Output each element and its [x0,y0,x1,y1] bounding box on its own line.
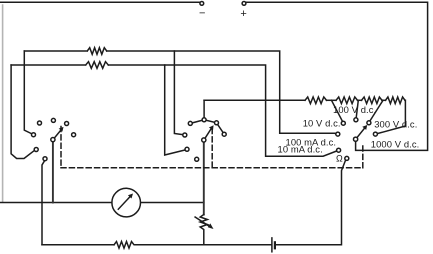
wire: chain segment J1 [327,99,337,101]
dashed gang coupling: right vertical [362,146,364,168]
wire: middle switch wiper shaft down [203,142,205,215]
page gutter shadow [2,5,4,202]
multiplier chain top wire [204,99,305,101]
rheostat RV1 zigzag [200,215,207,245]
right switch 1000V contact [373,132,377,136]
bottom battery line with resistor R7 [42,242,271,249]
wire: chain segment J3 [382,99,386,101]
right switch S1c wiper arrow [357,128,365,138]
resistor R1 top-left [24,48,106,55]
middle switch contact 3 [202,118,206,122]
rheostat RV1 arrow [195,217,211,227]
left switch S1a wiper arrow [54,130,61,139]
battery B1 long plate [271,238,273,252]
svg-text:Ω: Ω [336,153,343,163]
wire: J3 diagonal to 300V contact [370,100,383,121]
wire: top positive lead to right rail down to V-range wiper [246,2,428,150]
wire: meter line right to shunt rheostat [141,202,204,204]
wire: tap from R1 line to middle switch left contact [174,51,183,135]
wire: J2 stub to 100V contact [356,100,358,118]
middle switch contact 4 [215,121,219,125]
left switch contact 6 [34,148,38,152]
svg-text:100 V d.c.: 100 V d.c. [333,104,376,115]
dashed gang coupling: horizontal [61,167,363,169]
middle switch contact 6 [185,147,189,151]
svg-text:10 mA d.c.: 10 mA d.c. [278,144,323,155]
wire: chain end down to 1000V contact [377,100,405,133]
middle switch contact 5 [222,132,226,136]
svg-text:300 V d.c.: 300 V d.c. [374,118,417,129]
wire: left switch bottom contact down to battery line [42,161,45,245]
resistor R3 [305,97,327,104]
svg-text:10 V d.c.: 10 V d.c. [303,117,341,128]
middle switch contact 2 [188,121,192,125]
dashed gang coupling: left vertical [60,127,62,168]
wire: meter line left [0,202,112,204]
svg-text:+: + [240,8,246,20]
meter M1 body [112,188,141,217]
resistor R4 [336,97,358,104]
right switch 100V contact [354,118,358,122]
right switch 10V contact [341,121,345,125]
right switch pivot [354,137,358,141]
left switch contact 2 [38,121,42,125]
resistor R5 [362,97,383,104]
left switch contact 3 [51,118,55,122]
terminal negative [200,2,204,6]
wire: R2 right run down to 10mA contact [108,65,337,156]
wire: middle switch commoned contact link [190,120,224,134]
wire: left switch wiper shaft down to meter line [52,142,54,203]
resistor R6 [386,97,406,104]
wire: chain segment J2 [358,99,362,101]
right switch 300V contact [367,121,371,125]
resistor R2 second-left [11,62,108,69]
left switch contact 7 [43,157,47,161]
left switch pivot [51,138,55,142]
wire: R1 right run down to 100mA contact [107,51,336,134]
right switch 10mA contact [337,148,341,152]
wire: R2 to left switch lower contact [11,65,34,159]
left switch contact 4 [65,122,69,126]
dashed gang coupling: middle vertical [211,129,213,168]
left switch contact 1 [32,133,36,137]
svg-text:−: − [199,8,205,20]
middle switch pivot [202,138,206,142]
middle switch contact 7 [195,157,199,161]
battery B1 short plate [274,242,276,248]
right switch ohms contact [345,156,349,160]
wire: tap from R2 line to middle switch lower-left contact [165,65,186,155]
wire: top negative lead [0,1,200,3]
wire: J1 diagonal to 10V contact [332,100,343,121]
middle switch contact 1 [183,133,187,137]
meter M1 needle [118,197,130,209]
wire: R1 to left switch contact [24,51,32,134]
wire: middle switch top contact up to multiplier chain [203,100,205,118]
wire: battery to ohms contact riser [276,160,345,245]
middle switch S1b wiper arrow [205,129,211,139]
terminal positive [242,2,246,6]
right switch 100mA contact [336,132,340,136]
svg-text:1000 V d.c.: 1000 V d.c. [371,139,420,150]
left switch contact 5 [72,133,76,137]
